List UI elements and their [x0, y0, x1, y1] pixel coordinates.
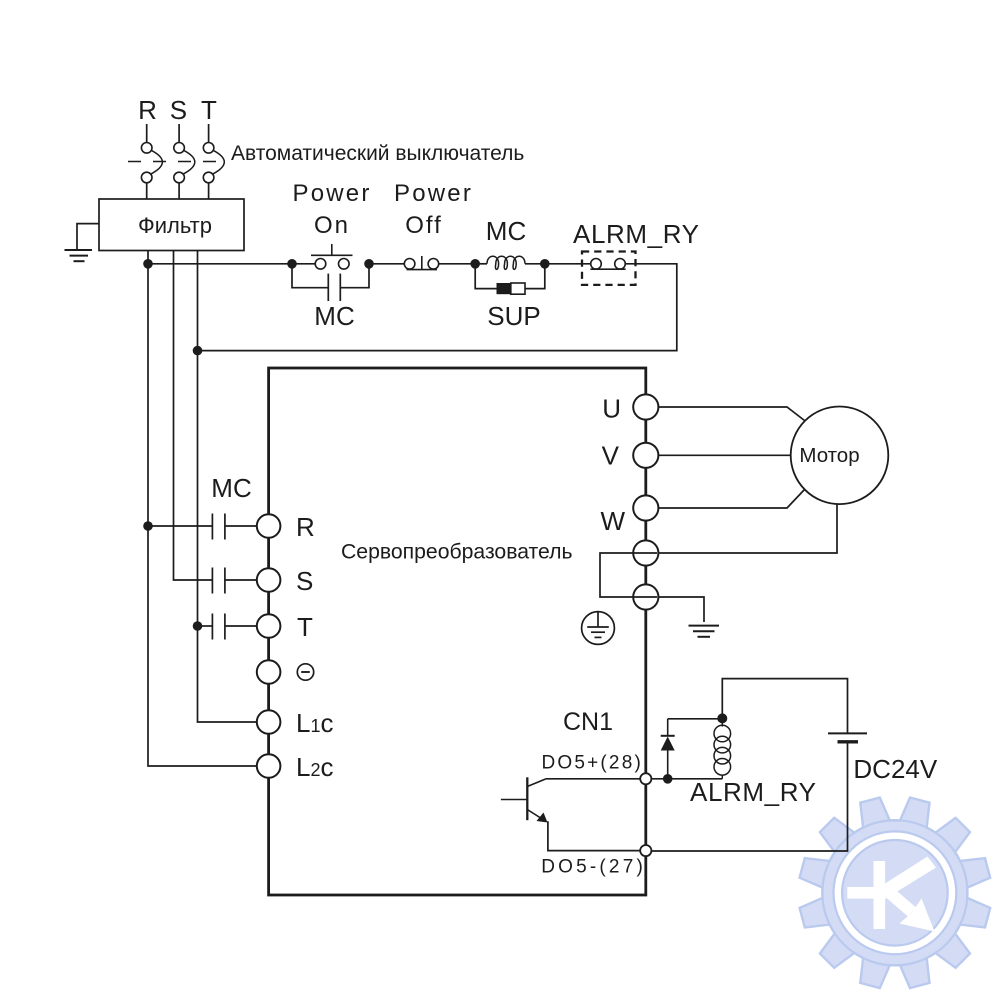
junction (Power On right) [364, 259, 374, 269]
svg-text:CN1: CN1 [563, 708, 613, 736]
svg-text:DC24V: DC24V [853, 754, 937, 784]
svg-text:ALRM_RY: ALRM_RY [573, 219, 700, 249]
svg-text:MC: MC [486, 216, 526, 246]
terminal T [257, 612, 313, 642]
ground (filter) [65, 224, 100, 262]
svg-text:R: R [138, 95, 157, 125]
svg-text:Мотор: Мотор [799, 444, 859, 467]
junction on phase R (MC contact) [143, 521, 153, 531]
terminal PE [633, 584, 658, 609]
protective earth symbol [582, 612, 615, 645]
junction (MC coil right) [540, 259, 550, 269]
wire phase T (to MC contact T and L1c) [198, 251, 257, 722]
wire phase R to MC contact [148, 525, 212, 527]
svg-text:Фильтр: Фильтр [138, 213, 212, 238]
svg-text:ALRM_RY: ALRM_RY [690, 777, 817, 807]
internal PE link [600, 553, 657, 597]
breaker linkage (dashed) [128, 161, 222, 163]
MC main contact T [212, 614, 256, 640]
wire V to motor [658, 454, 791, 456]
transistor Q1 (open collector) [501, 777, 548, 822]
pushbutton Power On [311, 244, 353, 269]
terminal motor-ground [633, 540, 658, 565]
svg-text:Сервопреобразователь: Сервопреобразователь [341, 541, 573, 564]
junction on phase T (control return) [193, 346, 203, 356]
MC holding contact branch [292, 264, 369, 301]
terminal DO5- pin 27 [640, 845, 651, 856]
battery DC24V [828, 733, 867, 741]
svg-text:PowerOff: PowerOff [394, 180, 473, 239]
terminal U [602, 394, 658, 424]
wire emitter to DO5- [548, 821, 640, 850]
wire collector to DO5+ [546, 778, 641, 780]
decorative watermark [800, 798, 991, 989]
svg-text:L1c: L1c [296, 708, 333, 738]
svg-text:SUP: SUP [487, 301, 540, 331]
terminal S [257, 566, 314, 596]
svg-text:DO5-(27): DO5-(27) [541, 857, 646, 878]
terminal V [602, 441, 659, 471]
svg-text:W: W [600, 506, 625, 536]
terminal minus [257, 660, 314, 684]
circuit breaker pole R [141, 124, 162, 200]
svg-text:MC: MC [211, 473, 251, 503]
svg-text:S: S [170, 95, 187, 125]
flyback diode D1 [661, 719, 723, 779]
svg-text:V: V [602, 441, 620, 471]
wire PE to chassis ground [658, 597, 704, 622]
wire W to motor [658, 490, 805, 509]
circuit breaker pole S [174, 124, 195, 200]
terminal DO5+ pin 28 [640, 773, 651, 784]
svg-text:S: S [296, 566, 313, 596]
relay coil ALRM_RY [714, 718, 731, 778]
junction on phase T (MC contact) [193, 621, 203, 631]
filter box [99, 199, 244, 251]
wire DO5+ to relay coil [651, 778, 722, 780]
junction on phase R [143, 259, 153, 269]
svg-text:T: T [297, 612, 313, 642]
contactor coil MC [475, 256, 545, 269]
relay contact ALRM_RY [582, 252, 636, 285]
terminal L2c [257, 752, 334, 782]
terminal R [257, 512, 315, 542]
svg-text:PowerOn: PowerOn [292, 180, 371, 239]
junction (coil top) [717, 713, 727, 723]
svg-text:Автоматический выключатель: Автоматический выключатель [231, 142, 524, 165]
MC main contact R [212, 514, 256, 540]
wire motor frame ground [658, 504, 837, 553]
wire phase S (to MC contact S) [174, 251, 213, 580]
wire battery - to DO5- [651, 742, 847, 851]
junction (diode anode) [663, 774, 673, 784]
terminal W [600, 495, 658, 536]
wire phase T to MC contact [198, 625, 213, 627]
MC main contact S [212, 568, 256, 594]
wire U to motor [658, 407, 805, 421]
wire MC coil to ALRM_RY contact [545, 263, 591, 265]
svg-text:R: R [296, 512, 315, 542]
wire coil to battery + [722, 679, 847, 733]
wire Power Off to MC coil [439, 263, 471, 265]
chassis ground [689, 626, 720, 637]
junction (Power On left) [287, 259, 297, 269]
surge suppressor SUP branch [475, 264, 545, 294]
servo drive box [269, 368, 646, 895]
wire phase R (to MC contact R and L2c) [148, 251, 257, 766]
circuit breaker pole T [203, 124, 224, 200]
terminal L1c [257, 708, 334, 738]
wire to Power On [148, 263, 315, 265]
svg-text:L2c: L2c [296, 752, 333, 782]
wire junction to Power Off [369, 263, 404, 265]
svg-text:U: U [602, 394, 621, 424]
junction (MC coil left) [470, 259, 480, 269]
svg-text:MC: MC [314, 301, 354, 331]
motor M [791, 407, 889, 505]
pushbutton Power Off [404, 256, 438, 270]
svg-text:T: T [201, 95, 217, 125]
control circuit return wire [198, 264, 677, 351]
svg-text:DO5+(28): DO5+(28) [541, 753, 643, 774]
